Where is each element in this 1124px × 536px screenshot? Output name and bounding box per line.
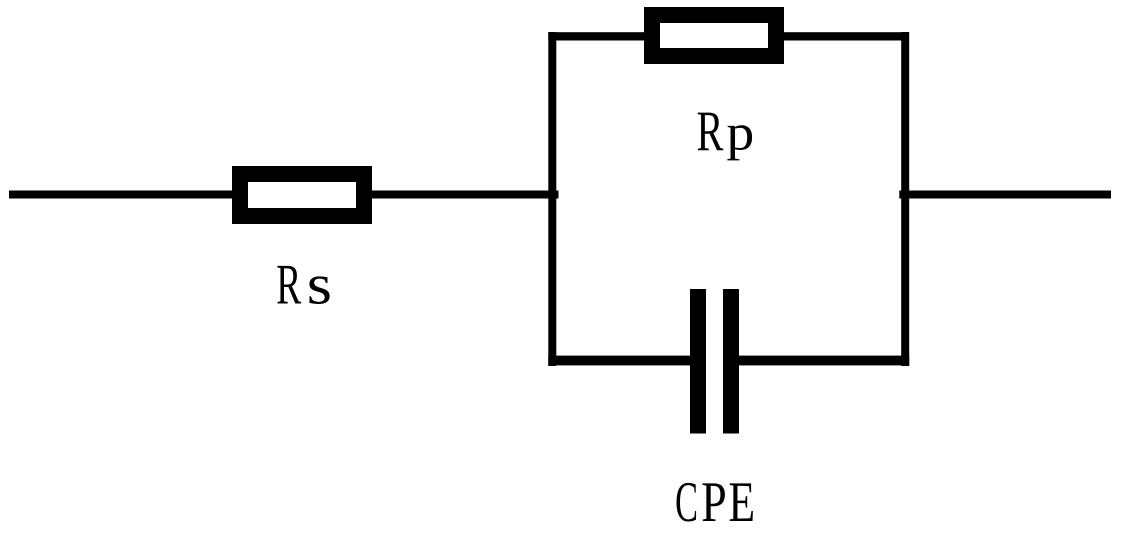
resistor Rp	[652, 15, 776, 56]
label Rp: glyph R	[698, 113, 724, 151]
wire: top branch of parallel loop	[548, 32, 909, 40]
wire: left lead into Rs and on to parallel block	[9, 191, 559, 199]
label Rp: glyph p	[727, 125, 752, 160]
wire: right vertical of parallel loop	[901, 32, 909, 366]
label CPE: glyph P	[703, 483, 725, 521]
label Rs: glyph R	[277, 266, 301, 304]
label Rs: glyph s	[309, 276, 329, 304]
label CPE: glyph C	[676, 483, 696, 522]
wire: bottom branch left segment	[548, 356, 690, 366]
wire: right output lead	[899, 191, 1111, 199]
label CPE: glyph E	[730, 483, 753, 521]
wire: bottom branch right segment	[739, 356, 909, 366]
capacitor CPE right plate	[723, 289, 739, 434]
capacitor CPE left plate	[690, 289, 706, 434]
resistor Rs	[240, 174, 364, 216]
wire: left vertical of parallel loop	[548, 32, 556, 366]
